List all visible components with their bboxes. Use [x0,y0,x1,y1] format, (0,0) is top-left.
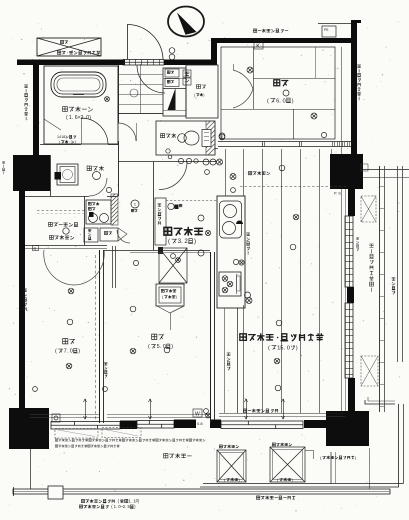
left vertical label (bedroom side) [23,289,26,292]
washitsu inner boundary [221,47,335,139]
column: left middle (concrete) [13,155,50,191]
washroom door arc [89,178,107,196]
bedroom2 symbols [133,260,138,265]
rail post box [48,486,63,499]
svg-text:(: ( [267,98,269,104]
wall bedroom2/living [210,252,212,423]
svg-text:.: . [116,504,117,509]
bathroom label [63,107,68,112]
svg-text:.: . [131,499,132,504]
svg-text:0: 0 [70,349,73,355]
outer wall: top-left horizontal [17,60,125,66]
WIC label [48,222,52,226]
service balcony rail [379,166,381,412]
washitsu side strip [341,47,343,154]
svg-text:): ) [75,140,76,144]
svg-text:): ) [292,98,294,104]
svg-text:(: ( [66,115,68,121]
balcony right conn [369,448,371,489]
washroom walls [50,155,52,196]
window end boxes [52,414,60,422]
window: living south [221,421,303,429]
bathroom door arc [40,144,81,146]
living beam dashed line [240,186,348,188]
accent label [248,171,251,174]
evacuation hatch 2 [272,443,275,446]
bottom wall segment right of living window [304,420,326,428]
roof balcony label above top wall [253,29,256,32]
aluminum border rail label [256,496,259,499]
symbol E near toilet [219,133,225,139]
outer wall: right of living (segment 1) [348,189,355,216]
neighbor building boundary [397,166,399,362]
svg-text:8: 8 [63,135,65,139]
svg-text:.: . [181,238,183,245]
bedroom1/bedroom2 wall [99,250,101,423]
curtain box living [219,413,345,415]
cabinet door marks [118,228,127,241]
svg-text:): ) [194,238,196,245]
outer wall: right vertical upper [351,20,357,154]
toilet room walls [156,121,215,155]
service balcony label [370,244,374,247]
svg-text:W: W [195,412,200,418]
svg-text:0.8: 0.8 [197,421,203,426]
oshiire label [197,85,201,89]
vanity side hatch (pipe space) [111,194,118,225]
balcony outer rail [13,489,390,494]
bathroom walls [44,66,118,144]
outer wall: top middle segment [164,60,217,66]
tiny vertical label left of column [2,162,5,164]
service balcony hatch upper [361,196,376,222]
column: bottom left (concrete) [9,408,49,449]
outer wall: left vertical lower (bedroom) [19,191,25,409]
gas stove [219,272,241,296]
svg-text:.: . [336,192,337,196]
svg-text:): ) [78,349,80,355]
balcony spec text line [55,439,57,441]
svg-text:E: E [221,135,223,139]
refrigerator space (X-box) [159,248,187,283]
living-dining label [240,334,247,341]
svg-text:): ) [296,345,298,351]
bedroom2 door arc [117,230,130,243]
entrance hall grid [118,74,163,76]
bedroom1 label [63,339,68,344]
hose bib label [356,238,359,240]
outdoor unit label [60,40,63,43]
entry door swing (outside) [127,25,129,60]
neighbor label [392,278,395,281]
bedroom1 inner dashed line [95,255,97,420]
balcony label [164,454,168,458]
genkan vertical label boxes [183,70,191,77]
kitchen counter [217,196,245,308]
window: living east 2 [345,303,353,378]
toilet fixture [178,134,187,143]
C symbol [131,200,139,208]
toilet pipe space hatch [206,121,215,155]
rail spec labels [81,499,84,502]
svg-text:.: . [125,504,126,509]
service balcony bottom L edge [365,400,395,404]
bathtub [51,72,106,97]
corridor symbol [33,246,39,251]
tatami joint lines [253,78,335,80]
washing machine [57,164,78,185]
washitsu symbols [247,67,253,73]
bedroom1 door arcs [44,250,74,285]
outer wall: washitsu top [211,38,357,43]
window: entrance porch top [123,60,164,66]
lower cabinets [84,228,98,242]
outer wall: left vertical upper (bath side) [33,64,39,155]
bedroom2 label [152,334,157,339]
balcony hatch dashed boxes [55,429,98,439]
compass north symbol [168,7,204,37]
right upper vertical label [357,65,360,68]
hall-washroom door arc [118,123,136,141]
curtain box bedrooms [30,414,99,416]
left vertical label (bath side) [24,85,27,88]
pipe-space label box top right [322,26,336,37]
WIC hanger line [37,210,86,212]
oshiire closet [186,65,218,118]
vanity unit [86,200,111,224]
svg-text:(: ( [268,345,270,351]
linen cabinet [156,284,184,306]
outer wall: step vertical at entrance/washitsu [211,38,217,64]
svg-text:(: ( [55,349,57,355]
svg-text:.: . [72,115,73,121]
svg-text:(: ( [168,238,170,245]
dropped ceiling strip [224,308,226,413]
bedroom2 top wall [104,250,210,252]
svg-text:(: ( [148,344,150,350]
service balcony ac unit hatch [361,356,378,386]
bottom wall segment between bedroom and living [174,420,196,429]
living floor boards [225,149,227,196]
svg-text:0: 0 [287,345,290,351]
bedroom1 symbols [68,288,74,294]
evacuation hatch 1 [219,445,222,448]
K label box [254,41,263,49]
kitchen label [164,227,172,235]
closet folding door marks [157,306,184,313]
service balcony top edge [363,169,409,171]
shoe cabinet / doormat box [163,68,186,116]
corridor nook wall at bedroom2 entry [112,246,114,288]
window arrows [85,399,87,419]
track comb hatch right [332,142,334,147]
svg-text:): ) [171,344,173,350]
kitchen symbols [205,170,210,175]
column: right middle (concrete) [330,154,363,189]
window: living east 1 [347,215,349,217]
bottom wall / windows of bedrooms [51,422,120,430]
door bell symbols [169,48,175,54]
MB / meter box label [57,51,60,54]
toilet label [161,134,165,138]
entrance door arc [137,65,165,93]
svg-text:): ) [203,93,204,97]
svg-text:R: R [34,246,37,251]
outer wall: right of living (segment 2) [347,287,354,303]
svg-text:K: K [256,44,260,50]
kitchen-hall wall [118,161,159,163]
kitchen closet strip [153,162,155,250]
right wall top cap [351,20,361,23]
hall-living boundary [215,148,218,150]
living symbols [279,165,285,171]
outer wall: right of living (segment 3) [348,378,355,411]
walk-in closet walls [84,196,86,245]
washitsu sliding door track [218,141,351,143]
washitsu label [274,80,280,86]
balcony side edge left [30,449,32,489]
washitsu double doors [233,70,253,89]
outdoor unit (X-box) [37,38,101,56]
bathroom vent symbol [105,97,110,102]
rail left cap [13,487,15,496]
entrance step black wedge [168,88,176,110]
column: bottom right (concrete) [326,411,369,446]
svg-text:0: 0 [283,98,286,104]
kitchen door arc [159,162,187,190]
double symbols below toilet [203,159,209,165]
washroom label [87,166,91,170]
counter vertical label [246,233,249,236]
